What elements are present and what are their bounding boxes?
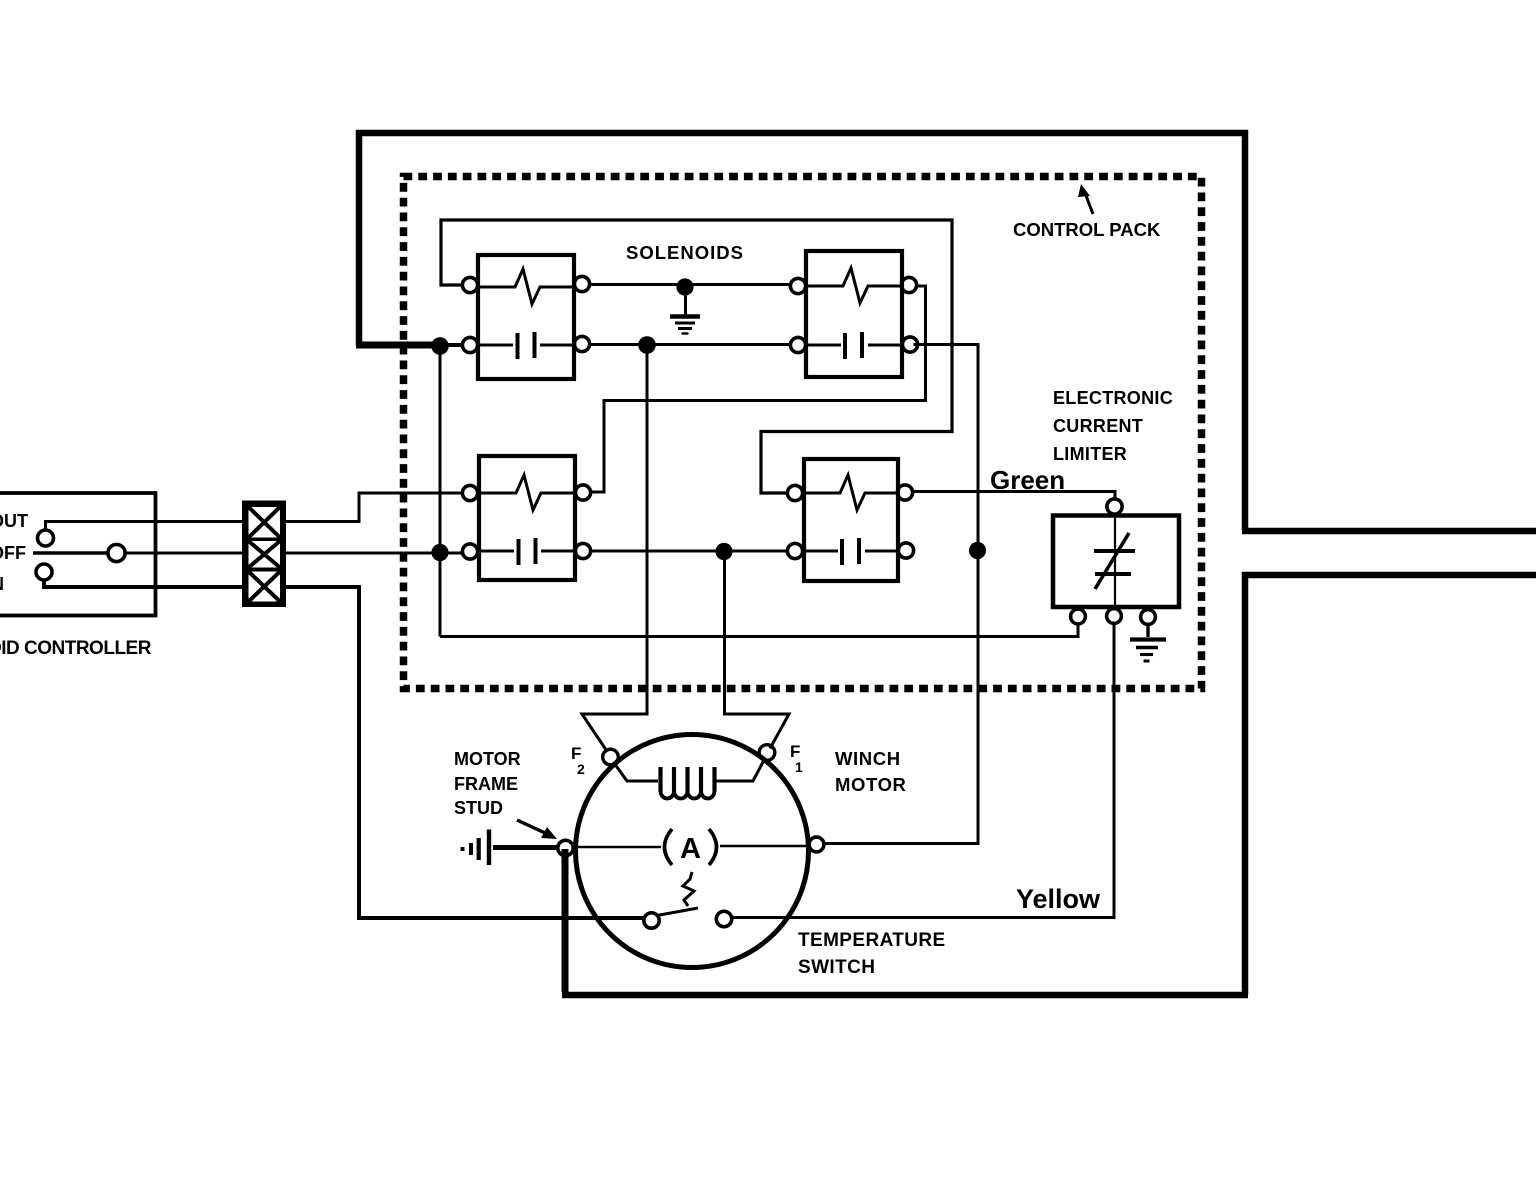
wire: OUT lead from controller to solenoid 3 coil	[46, 493, 463, 531]
terminal: S1 coil left	[462, 277, 477, 292]
solenoid frame wire: connects solenoid 1 coil, top run, down right side to solenoid 4 coil	[441, 220, 952, 493]
wire: contact row between S1 and S2	[590, 343, 790, 346]
terminal: limiter bottom middle	[1107, 609, 1122, 624]
node: junction to winch motor F1	[715, 543, 732, 560]
wire: heavy cable bottom edge	[562, 992, 1248, 999]
terminal: armature left (motor frame stud)	[558, 840, 573, 855]
svg-text:LIMITER: LIMITER	[1053, 444, 1127, 464]
wire: heavy cable left edge of outer enclosure	[356, 130, 363, 345]
armature symbol (A)	[665, 829, 717, 865]
svg-text:A: A	[680, 833, 701, 865]
terminal: limiter bottom right	[1141, 610, 1156, 625]
arrow from MOTOR FRAME STUD label to stud terminal	[517, 820, 557, 839]
svg-text:WINCH: WINCH	[835, 748, 901, 769]
wire: IN lead from controller down and across to temperature switch	[44, 579, 644, 918]
svg-text:Green: Green	[990, 465, 1065, 495]
svg-text:SOLENOIDS: SOLENOIDS	[626, 242, 744, 263]
wire: coil row between S1 and S2 with ground tap	[589, 283, 791, 286]
terminal: temperature switch left	[644, 913, 659, 928]
electronic current limiter box	[1053, 516, 1179, 608]
temperature switch blade	[657, 908, 698, 916]
wire: S2 coil right jog down to S3 coil right	[590, 286, 926, 492]
wire: heavy cable stub to battery, upper right	[1242, 528, 1536, 535]
terminal: controller IN contact	[36, 564, 52, 580]
arrow from CONTROL PACK label to dashed border	[1078, 184, 1093, 214]
wire: Yellow lead from limiter middle terminal to temperature switch	[732, 624, 1114, 918]
solenoid S3 (lower left)	[479, 456, 575, 580]
solenoid S1 (upper left)	[478, 255, 574, 379]
svg-text:OUT: OUT	[0, 511, 28, 531]
wire: S2 contact right down the right side to armature right terminal	[824, 345, 978, 844]
terminal: S1 coil right	[574, 276, 589, 291]
terminal: motor field F1	[759, 745, 775, 761]
node: junction of OFF row with feed vertical	[431, 544, 448, 561]
motor frame stud ground symbol	[463, 830, 559, 866]
wire: heavy cable right edge lower segment	[1242, 572, 1249, 995]
terminal: armature right	[809, 837, 824, 852]
terminal: S1 contact right	[574, 336, 589, 351]
wire: vertical from feed junction down to limiter return run	[439, 345, 442, 637]
winch motor body circle	[576, 735, 809, 968]
terminal: S3 contact right	[575, 543, 590, 558]
svg-text:SWITCH: SWITCH	[798, 957, 875, 978]
terminal: S1 contact left	[462, 337, 477, 352]
terminal: S2 contact right	[902, 337, 917, 352]
wire: heavy battery cable loop, top edge of outer enclosure	[356, 130, 1248, 137]
svg-text:CURRENT: CURRENT	[1053, 416, 1143, 436]
svg-text:2: 2	[577, 761, 585, 777]
svg-text:MOTOR: MOTOR	[454, 749, 521, 769]
terminal: temperature switch right	[716, 911, 731, 926]
solenoid controller box	[0, 493, 156, 616]
wire: middle contact row S3 to S4 with F1 tap	[591, 550, 788, 553]
terminal: controller OUT contact	[38, 530, 54, 546]
terminal: S4 coil right	[897, 485, 912, 500]
svg-text:TEMPERATURE: TEMPERATURE	[798, 930, 946, 951]
terminal: limiter top	[1107, 499, 1122, 514]
svg-text:Yellow: Yellow	[1016, 884, 1101, 914]
terminal: motor field F2	[603, 749, 619, 765]
svg-text:MOTOR: MOTOR	[835, 774, 907, 795]
thermal element squiggle inside motor	[683, 872, 694, 906]
terminal: S3 coil left	[462, 485, 477, 500]
control pack dashed border	[404, 177, 1202, 689]
wire: armature row	[573, 846, 661, 849]
ground symbol below solenoid coil row	[670, 293, 700, 334]
connector block (3-way plug)	[242, 501, 286, 608]
node: junction of contact row with armature feed	[969, 542, 986, 559]
wire: from F2 junction down through control pack border to motor funnel	[582, 345, 647, 752]
terminal: S2 coil right	[901, 277, 916, 292]
solenoid S2 (upper right)	[806, 251, 902, 377]
svg-text:STUD: STUD	[454, 798, 503, 818]
switch blade OFF with moving contact	[33, 551, 108, 554]
svg-text:ELECTRONIC: ELECTRONIC	[1053, 388, 1173, 408]
wire: horizontal run to electronic current limiter lower-left terminal	[440, 623, 1078, 637]
terminal: S4 coil left	[787, 485, 802, 500]
svg-text:SOLENOID CONTROLLER: SOLENOID CONTROLLER	[0, 638, 152, 659]
terminal: S2 contact left	[790, 337, 805, 352]
terminal: S4 contact right	[898, 543, 913, 558]
node: feed junction at solenoid 1 contact	[431, 337, 449, 355]
terminal: limiter bottom left	[1071, 609, 1086, 624]
wire: heavy cable right edge upper segment	[1242, 130, 1249, 531]
svg-text:FRAME: FRAME	[454, 774, 518, 794]
terminal: S2 coil left	[790, 278, 805, 293]
node: ground junction between solenoid coils	[676, 278, 693, 295]
wire: feed junction to solenoid 1 contact terminal	[440, 343, 462, 347]
wire: heavy feed cable from left edge to solenoid contact junction	[356, 342, 437, 349]
node: junction to winch motor F2	[638, 336, 656, 354]
terminal: S4 contact left	[787, 543, 802, 558]
svg-text:OFF: OFF	[0, 543, 26, 563]
wire: Green lead from S4 coil right to limiter top terminal	[912, 492, 1115, 500]
svg-text:CONTROL PACK: CONTROL PACK	[1013, 219, 1161, 240]
terminal: S3 contact left	[462, 544, 477, 559]
svg-text:1: 1	[795, 759, 803, 775]
terminal: S3 coil right	[575, 485, 590, 500]
field coil winding inside motor	[614, 761, 764, 799]
wire: heavy cable stub from battery, lower right	[1242, 572, 1536, 579]
ground symbol below limiter	[1130, 624, 1166, 661]
solenoid S4 (lower right)	[804, 459, 898, 581]
wire: from F1 junction down through control pack border to motor funnel	[725, 552, 790, 749]
wire: heavy cable from winch motor armature down to bottom edge	[562, 849, 569, 992]
svg-text:IN: IN	[0, 574, 4, 594]
wire: OFF lead from controller to middle contact row	[125, 552, 462, 555]
